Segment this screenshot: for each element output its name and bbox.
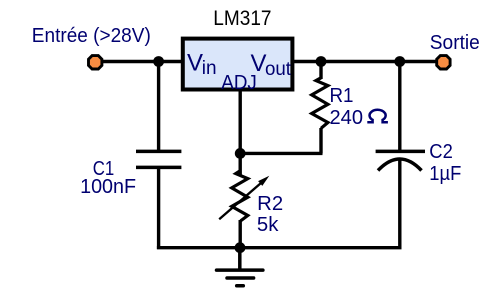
- svg-text:in: in: [202, 57, 217, 79]
- ground: [217, 250, 263, 286]
- wire: R1 bottom horizontal to node B: [239, 152, 323, 155]
- wire: R2 bottom to ground rail: [238, 220, 241, 249]
- svg-text:R2: R2: [257, 193, 283, 215]
- wire: R1 top stub: [319, 62, 322, 80]
- node B junction dot (ADJ): [235, 148, 246, 159]
- arrow of potentiometer R2: [219, 183, 261, 219]
- label ohm symbol of R1 value: [367, 110, 388, 122]
- svg-text:Entrée (>28V): Entrée (>28V): [32, 25, 151, 47]
- wire: Vout to output terminal: [292, 60, 438, 63]
- svg-text:V: V: [187, 50, 203, 77]
- capacitor C1: [136, 151, 181, 167]
- capacitor C2 (polarized): [376, 151, 425, 170]
- node: Vout junction dot: [316, 56, 327, 67]
- node: ground rail junction dot: [235, 242, 246, 253]
- svg-text:240: 240: [330, 107, 364, 129]
- wire: node B to R2 top: [238, 153, 241, 175]
- svg-text:C2: C2: [429, 141, 453, 163]
- node A junction dot: [153, 56, 164, 67]
- wire: C2 bottom to ground rail: [398, 160, 401, 249]
- svg-text:Sortie: Sortie: [430, 32, 480, 54]
- svg-text:R1: R1: [330, 85, 354, 107]
- svg-text:out: out: [265, 58, 292, 80]
- wire: bottom ground rail: [157, 246, 402, 249]
- node C junction dot: [394, 56, 405, 67]
- resistor R2 (potentiometer): [232, 171, 248, 221]
- IC U1 LM317 regulator body: [183, 39, 293, 90]
- wire: ADJ pin down to node B: [238, 90, 241, 155]
- terminal: output (Sortie): [437, 56, 450, 69]
- svg-text:LM317: LM317: [213, 7, 271, 30]
- svg-text:100nF: 100nF: [80, 176, 136, 198]
- svg-text:ADJ: ADJ: [221, 71, 256, 94]
- wire: C1 bottom to ground rail: [157, 167, 160, 250]
- wire: input terminal to Vin: [103, 60, 183, 63]
- wire: node C down to C2 top: [398, 62, 401, 153]
- wire: node A down to C1 top: [157, 62, 160, 153]
- wire: R1 bottom to horizontal: [319, 128, 322, 153]
- terminal: input (Entrée): [89, 56, 102, 69]
- svg-text:1µF: 1µF: [429, 163, 461, 185]
- svg-text:5k: 5k: [257, 214, 280, 236]
- resistor R1: [312, 78, 328, 129]
